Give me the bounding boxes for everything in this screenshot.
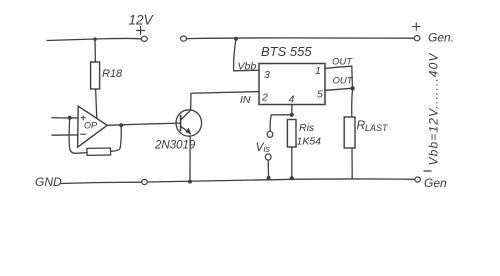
wire R18 bottom to op-amp bbox=[96, 89, 97, 118]
node junction Vbb tap bbox=[234, 37, 238, 41]
wire pin4 down bbox=[291, 105, 293, 115]
node terminal circle top Gen bbox=[414, 36, 420, 41]
wire Ris bottom bbox=[291, 147, 293, 178]
node junction R18 tap bbox=[93, 37, 96, 40]
node junction emitter-gnd bbox=[188, 180, 192, 184]
resistor feedback bbox=[87, 148, 111, 155]
wire op-amp output to base bbox=[107, 123, 180, 125]
svg-text:OUT: OUT bbox=[332, 57, 353, 68]
node terminal circle 12V bbox=[141, 36, 147, 41]
node terminal Vis lower circle bbox=[265, 154, 271, 160]
resistor R18 bbox=[91, 62, 100, 89]
op-amp minus input mark bbox=[81, 133, 86, 135]
svg-text:Gen: Gen bbox=[424, 176, 447, 190]
svg-text:R18: R18 bbox=[102, 68, 123, 80]
label Vis bbox=[256, 140, 271, 154]
resistor Ris bbox=[287, 120, 296, 148]
svg-text:IN: IN bbox=[240, 94, 251, 106]
node terminal circle rail right start bbox=[181, 36, 187, 41]
wire top rail left segment bbox=[47, 38, 141, 40]
resistor RLAST bbox=[344, 117, 355, 148]
svg-text:OUT: OUT bbox=[333, 76, 354, 87]
svg-text:is: is bbox=[264, 144, 271, 154]
wire emitter down bbox=[189, 136, 191, 182]
node terminal Vis upper circle bbox=[267, 131, 273, 137]
wire OUT down to RLAST bbox=[351, 88, 354, 117]
wire OUT pin1 bbox=[325, 66, 352, 88]
node junction Vis-gnd bbox=[267, 176, 271, 180]
label plus at Gen bbox=[413, 23, 421, 30]
wire gnd rail left bbox=[60, 182, 141, 183]
node junction op-amp output bbox=[119, 123, 123, 127]
wire top rail right segment bbox=[187, 37, 414, 40]
svg-text:Gen.: Gen. bbox=[428, 31, 454, 45]
wire collector up and right to IN bbox=[191, 92, 259, 111]
svg-text:Vbb: Vbb bbox=[238, 61, 257, 73]
wire Vis tap bbox=[270, 115, 292, 131]
svg-text:1K54: 1K54 bbox=[297, 136, 322, 148]
wire feedback left down bbox=[69, 118, 87, 154]
wire op-amp input bottom bbox=[52, 134, 78, 136]
svg-text:2: 2 bbox=[261, 92, 268, 104]
wire op-amp input top bbox=[52, 117, 78, 119]
label RLAST bbox=[357, 118, 390, 133]
svg-text:3: 3 bbox=[264, 69, 270, 81]
svg-text:OP: OP bbox=[84, 121, 97, 131]
node junction op-amp input bbox=[68, 116, 72, 120]
node junction Ris-gnd bbox=[290, 176, 294, 180]
svg-text:BTS 555: BTS 555 bbox=[261, 44, 312, 59]
transistor Q1 2N3019 bbox=[176, 110, 202, 136]
wire Vbb bbox=[234, 39, 259, 71]
wire OUT pin5 bbox=[325, 88, 352, 90]
node junction OUT bbox=[350, 86, 354, 90]
wire R18 top bbox=[94, 39, 96, 62]
svg-text:Ris: Ris bbox=[299, 122, 315, 134]
label 12V plus bbox=[137, 27, 145, 35]
svg-text:LAST: LAST bbox=[365, 123, 389, 133]
wire feedback right up bbox=[111, 126, 122, 152]
op-amp plus input mark bbox=[81, 116, 85, 120]
svg-text:5: 5 bbox=[317, 89, 323, 101]
svg-text:Vbb=12V.......40V: Vbb=12V.......40V bbox=[427, 53, 441, 166]
wire Vis lower to gnd bbox=[267, 160, 269, 178]
node junction pin4 bbox=[290, 113, 294, 117]
op-amp U1 bbox=[78, 106, 108, 147]
svg-text:12V: 12V bbox=[129, 13, 155, 28]
IC U2 BTS555 body bbox=[259, 64, 325, 105]
svg-text:1: 1 bbox=[315, 65, 321, 77]
label minus at Gen bbox=[424, 170, 431, 172]
node terminal circle gnd bbox=[142, 179, 148, 184]
svg-text:4: 4 bbox=[289, 94, 295, 106]
svg-text:GND: GND bbox=[35, 175, 62, 189]
wire RLAST down bbox=[351, 148, 353, 178]
node terminal circle gnd Gen bbox=[415, 177, 421, 182]
wire gnd rail right bbox=[148, 179, 415, 182]
